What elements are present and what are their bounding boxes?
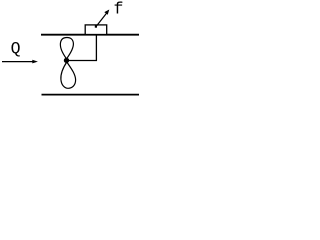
propeller bottom blade bbox=[61, 62, 76, 88]
propeller top blade bbox=[60, 38, 73, 59]
svg-text:f: f bbox=[114, 0, 124, 19]
top wall bbox=[41, 34, 139, 36]
svg-text:Q: Q bbox=[11, 39, 21, 58]
propeller hub dot bbox=[64, 58, 69, 63]
pivot dot on box bbox=[95, 26, 97, 28]
flow arrow Q bbox=[2, 61, 34, 63]
force arrow f bbox=[96, 13, 107, 27]
motor box bbox=[85, 25, 107, 35]
bottom wall bbox=[42, 94, 140, 96]
shaft wire bbox=[67, 35, 97, 61]
